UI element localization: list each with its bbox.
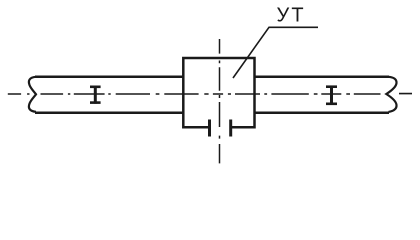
vertical device centerline (dash-dot) [219, 39, 221, 163]
left pipe break symbol [29, 77, 36, 112]
svg-text:УТ: УТ [277, 4, 306, 26]
left pipe top wall (wire) [35, 76, 183, 79]
device body УТ (rectangle, open bottom center) [183, 58, 254, 127]
horizontal pipe centerline (dash-dot, hand-placed marks) [8, 93, 412, 95]
leader line to label [233, 27, 318, 78]
right pipe top wall (wire) [255, 76, 390, 79]
left pipe bottom wall (wire) [35, 111, 183, 114]
bottom connection left tick [208, 120, 211, 137]
left joint symbol I [90, 86, 101, 103]
right pipe break symbol [386, 77, 396, 112]
right pipe bottom wall (wire) [255, 111, 390, 114]
right joint symbol I [326, 86, 337, 105]
bottom connection right tick [229, 120, 232, 137]
